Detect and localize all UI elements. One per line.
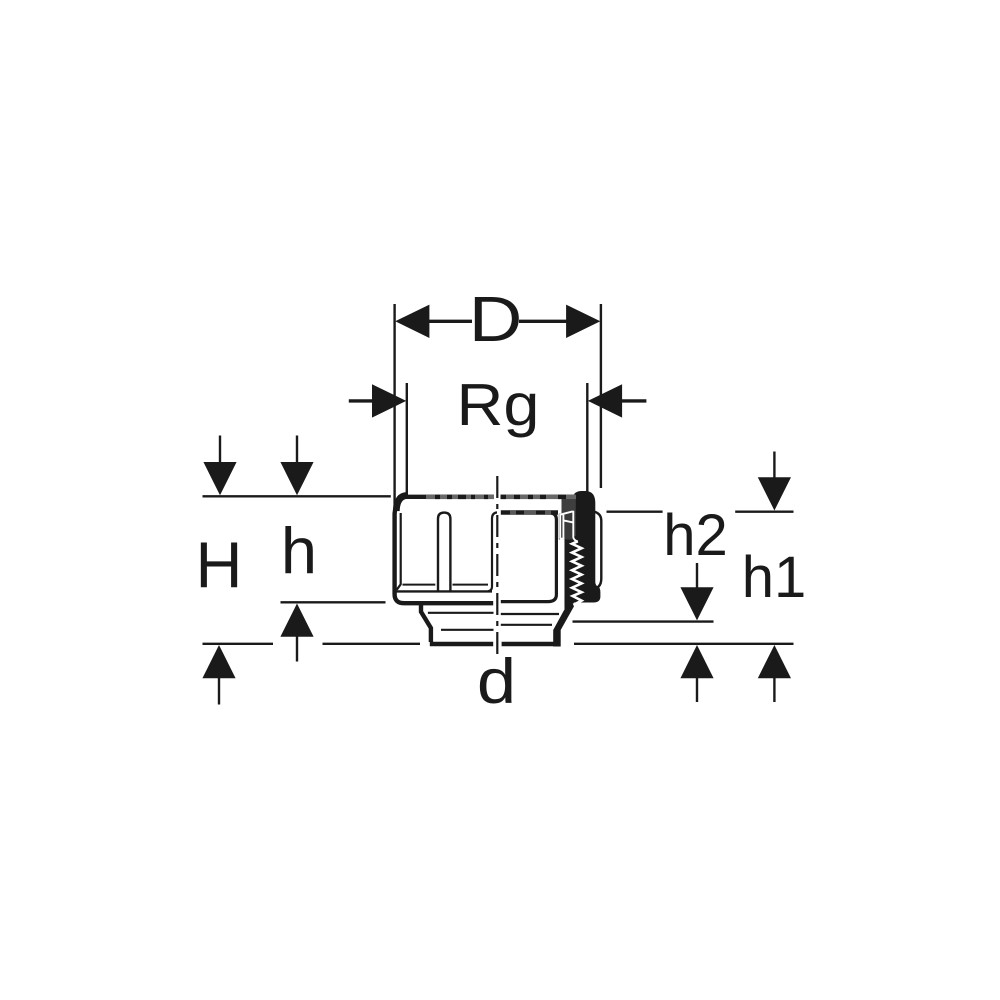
bore left wall line (488, 512, 497, 591)
svg-text:D: D (469, 283, 523, 355)
dimension Rg extension line left (406, 383, 408, 497)
cap interior floor line B (397, 590, 493, 592)
h1 bottom arrowhead a (680, 645, 713, 678)
h2 top reference line right segment (735, 511, 793, 513)
thread zigzag white line (572, 541, 582, 605)
cap outer shell outline (395, 497, 494, 603)
h bottom arrowhead (280, 604, 313, 637)
dimension Rg tail line left (349, 399, 374, 402)
bore ceiling line (501, 510, 558, 515)
dimension Rg tail line right (620, 399, 646, 402)
dimension D extension line left (393, 304, 395, 508)
spigot interior line y613 right (501, 613, 559, 615)
dimension D arrowhead left (395, 305, 429, 338)
dimension Rg extension line right (586, 383, 588, 500)
spigot interior line y630 left (441, 629, 494, 631)
dimension D extension line right (600, 304, 602, 488)
h1 bottom arrow stem b (773, 678, 775, 703)
h top arrowhead (280, 462, 313, 495)
watermark gray patches on bore ceiling line (510, 510, 551, 514)
svg-text:h1: h1 (742, 545, 807, 610)
bore right wall and floor (501, 513, 557, 602)
H bottom reference line right (323, 643, 421, 645)
h bottom reference line (281, 601, 386, 603)
spigot bottom edge right (502, 642, 558, 647)
h2 top arrowhead (758, 477, 791, 510)
svg-text:h: h (281, 514, 317, 587)
h2 top reference line left segment (607, 511, 663, 513)
h2 bottom arrow stem (696, 563, 698, 589)
svg-text:H: H (196, 528, 243, 601)
cap interior line A right (453, 584, 489, 586)
bush spigot right wall band (553, 597, 574, 647)
svg-text:h2: h2 (663, 503, 728, 568)
H h top reference line dash (398, 495, 405, 497)
outer right thin outline (592, 512, 602, 589)
h bottom arrow stem (296, 636, 298, 662)
H top arrow stem (219, 436, 221, 465)
cap top edge right of centerline (501, 495, 577, 499)
dimension D line right segment (519, 320, 568, 323)
svg-text:d: d (477, 646, 516, 717)
interior slot (438, 513, 450, 591)
screw plug tab gray fill (559, 511, 574, 540)
h top arrow stem (296, 436, 298, 465)
svg-text:Rg: Rg (457, 372, 540, 438)
white strip of screw plug (558, 514, 564, 610)
spigot interior line y613 left (428, 612, 494, 614)
h2 top arrow stem (773, 452, 775, 480)
spigot interior line y625 right (501, 624, 552, 626)
H bottom arrow stem (218, 678, 220, 705)
cap top-left corner thickening (396, 495, 407, 511)
threaded bush solid section (564, 491, 600, 603)
H h top reference line (203, 495, 391, 497)
spigot left outline (421, 603, 431, 642)
h2 bottom reference line (573, 620, 714, 622)
dimension Rg arrowhead left (372, 384, 406, 417)
dimension D arrowhead right (566, 305, 600, 338)
H top arrowhead (203, 462, 236, 495)
spigot bottom edge left (430, 642, 493, 647)
watermark stripes on cap top edge (426, 495, 576, 515)
h1 bottom reference line (574, 643, 794, 645)
H bottom arrowhead (202, 645, 235, 678)
h1 bottom arrowhead b (758, 645, 791, 678)
dimension D line left segment (428, 320, 472, 323)
h2 bottom arrowhead (680, 587, 713, 620)
screw plug tab white outline (560, 511, 578, 542)
cap inner left wall line (397, 513, 401, 590)
cap interior line A left (403, 584, 436, 586)
centerline (496, 476, 498, 657)
h1 bottom arrow stem a (696, 678, 698, 703)
dimension Rg arrowhead right (588, 384, 622, 417)
H bottom reference line left (203, 643, 274, 645)
gray wedge above tab (562, 499, 576, 536)
